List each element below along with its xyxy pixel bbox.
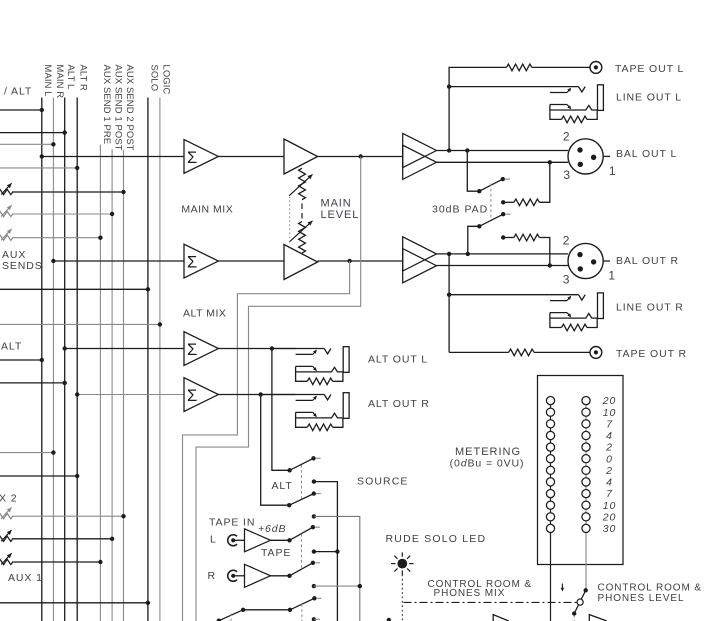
connector tape in R RCA [228,570,237,581]
wire level gang [573,616,575,621]
switch main mix source b [290,598,314,610]
potentiometer wiper R [289,221,312,242]
wire driver R minus out [437,265,569,267]
svg-text:(0dBu = 0VU): (0dBu = 0VU) [450,457,525,469]
switch source alt R [289,494,314,506]
switch source alt L [290,458,314,470]
wire alt out R [218,394,295,396]
svg-text:ALT OUT R: ALT OUT R [368,398,430,410]
switch cr phones level [584,588,588,592]
wire driver R plus out [437,253,569,255]
wire sum R to level amp [218,260,284,262]
op-amp phones L partial [493,615,509,621]
svg-text:PHONES MIX: PHONES MIX [434,588,506,599]
svg-text:4: 4 [606,430,613,442]
svg-text:1: 1 [609,164,617,178]
LED meter column L [546,397,554,405]
svg-text:3: 3 [563,273,571,287]
wire tape out R [449,351,509,353]
LED meter column R [582,397,590,405]
wire line out L feed [449,86,550,88]
potentiometer wiper L [289,174,312,195]
connector tape out L RCA [590,62,602,74]
wire meter column R [585,401,587,591]
wire main L out [318,156,403,158]
wire tape out R b [534,351,590,353]
switch pad L [479,179,503,191]
wire aux send [12,538,112,540]
wire alt mix R feed [77,394,184,396]
wire gang dotted [289,197,291,243]
svg-text:30: 30 [603,523,616,535]
wire MAIN R bus [52,98,54,621]
wire aux send [12,561,100,563]
connector alt out R jack [261,394,325,396]
wire ALT R bus [76,98,78,621]
svg-text:ALT: ALT [1,341,22,353]
wire SOLO bus [147,98,149,621]
svg-text:AUX SEND 1 PRE: AUX SEND 1 PRE [102,65,113,145]
svg-text:/ ALT: / ALT [4,86,32,98]
wire alt L to switch [272,349,290,471]
svg-text:L: L [210,533,217,545]
resistor main level pot R [299,222,306,254]
wire tape out L riser [449,67,506,150]
wire source gang B [301,534,303,570]
wire line out R feed [449,294,550,296]
wire source bus R [312,514,316,518]
wire alt out L [218,348,295,350]
wire channel feed alt R [0,475,77,477]
node bottom tap [312,617,316,621]
op-amp U3 alt mix L sum [184,332,218,366]
op-amp U4 alt mix R sum [184,378,218,412]
wire MAIN L bus [41,98,43,621]
svg-text:2: 2 [605,442,613,454]
wire channel feed [0,167,77,169]
svg-text:1: 1 [608,269,616,283]
wire line out R drop [448,254,450,353]
wire logic feed [0,323,160,325]
svg-text:ALT MIX: ALT MIX [183,308,226,320]
wire driver L plus out [437,150,569,152]
svg-text:BAL OUT L: BAL OUT L [616,148,677,160]
wire pad L pivot [467,151,479,192]
svg-text:ALT OUT L: ALT OUT L [368,353,428,365]
wire aux send [12,237,100,239]
LED rude solo [397,559,407,569]
svg-text:CONTROL ROOM &: CONTROL ROOM & [598,583,702,594]
connector tape in L RCA [228,535,237,546]
svg-text:MAIN: MAIN [321,198,352,210]
wire channel feed [0,109,42,111]
wire alt R to switch [261,395,290,506]
wire tape out L [532,66,590,68]
connector alt out L jack [272,348,324,350]
op-amp U9 tape in L [245,529,271,552]
wire main R out [318,260,403,262]
wire aux send [12,191,124,193]
svg-text:2: 2 [563,130,571,144]
svg-text:20: 20 [602,395,616,407]
wire alt mix L feed [65,348,184,350]
svg-text:TAPE OUT R: TAPE OUT R [616,348,687,360]
wire sum L to level amp [218,156,284,158]
potentiometer aux send [0,235,13,240]
wire AUX SEND 1 POST bus [111,149,113,621]
svg-text:Σ: Σ [187,341,197,359]
wire ALT L bus [64,98,66,621]
svg-text:X 2: X 2 [0,493,17,505]
op-amp U10 tape in R [245,564,271,587]
connector line out L jack [550,86,579,88]
svg-text:MAIN L: MAIN L [43,65,54,97]
svg-text:ALT: ALT [272,480,293,492]
resistor pad L [501,200,505,204]
wire main mix R feed [53,260,184,262]
wire channel feed main R [0,452,53,454]
potentiometer aux send [0,189,13,194]
svg-text:MAIN R: MAIN R [55,65,66,99]
wire main R to source [183,261,350,621]
potentiometer aux send [0,211,13,216]
wire gang D [301,604,303,621]
resistor main level pot L [299,168,306,200]
potentiometer aux send [0,559,13,564]
wire tap to R bus [312,584,316,588]
svg-text:+6dB: +6dB [258,523,286,535]
svg-text:AUX 1: AUX 1 [8,572,43,584]
switch source tape R [290,563,313,576]
svg-text:LINE OUT R: LINE OUT R [616,302,684,314]
node level min arrow [561,584,563,589]
svg-text:10: 10 [603,407,616,419]
wire tape R to switch [271,575,290,577]
svg-text:PHONES LEVEL: PHONES LEVEL [598,593,685,604]
svg-text:SOURCE: SOURCE [357,475,409,487]
wire gang C [230,614,232,621]
node bottom left dot [387,618,391,621]
potentiometer aux send [0,536,13,541]
resistor pad R [501,235,505,239]
svg-text:ALT L: ALT L [66,65,77,90]
svg-text:2: 2 [563,234,571,248]
svg-text:0: 0 [606,453,613,465]
op-amp U1 main mix L sum [184,140,218,174]
wire channel feed alt L [0,382,65,384]
svg-text:RUDE SOLO LED: RUDE SOLO LED [386,533,487,545]
svg-text:SENDS: SENDS [2,260,43,272]
svg-text:AUX SEND 2 POST: AUX SEND 2 POST [125,65,136,151]
switch source tape L [290,527,313,540]
svg-text:30dB PAD: 30dB PAD [432,203,488,215]
svg-text:ALT R: ALT R [79,65,90,92]
svg-text:TAPE IN: TAPE IN [209,517,255,529]
svg-text:MAIN MIX: MAIN MIX [181,203,233,215]
wire source gang A [301,465,303,499]
svg-text:4: 4 [606,477,613,489]
wire solo feed [0,288,148,290]
svg-text:Σ: Σ [187,253,197,271]
wire tap to L bus [312,549,316,553]
switch main mix source a [219,610,243,621]
wire channel feed [0,143,53,145]
wire main mix L feed [42,156,184,158]
wire dash-dot [404,601,577,603]
wire main L to source [196,157,361,621]
svg-text:LINE OUT L: LINE OUT L [616,91,682,103]
wire pot gang dash [301,204,303,219]
potentiometer aux send [0,514,13,519]
svg-text:R: R [208,570,216,582]
op-amp phones R partial [589,615,607,621]
svg-text:LEVEL: LEVEL [321,209,360,221]
wire solo feed 2 [0,602,148,604]
svg-text:7: 7 [606,488,613,500]
op-amp U7 balanced driver L [403,133,437,167]
op-amp U6 main level R [284,245,318,280]
wire LOGIC bus [159,98,161,621]
svg-text:BAL OUT R: BAL OUT R [616,255,679,267]
wire solo led dotted [401,575,403,621]
wire pad gang [490,184,492,222]
svg-text:Σ: Σ [187,387,197,405]
svg-text:AUX SEND 1 POST: AUX SEND 1 POST [114,65,125,151]
resistor tape out L [506,64,531,71]
wire source bus L [312,479,316,483]
wire channel feed [0,132,65,134]
wire bottom link [243,609,290,611]
svg-text:LOGIC: LOGIC [161,65,172,95]
svg-text:TAPE OUT L: TAPE OUT L [615,63,684,75]
svg-text:10: 10 [603,500,616,512]
connector bal out R XLR [568,243,603,278]
wire tape L to switch [271,539,290,541]
wire aux send [12,515,124,517]
wire aux send [12,213,112,215]
switch pad R [479,214,503,226]
wire driver L minus out [437,161,569,163]
svg-text:20: 20 [602,511,616,523]
wire AUX SEND 2 POST bus [123,150,125,621]
connector tape out R RCA [590,347,602,359]
svg-text:3: 3 [563,168,571,182]
wire channel feed main L [0,359,42,361]
resistor tape out R [509,349,534,356]
op-amp U5 main level L [284,139,318,174]
svg-text:7: 7 [606,418,613,430]
svg-text:Σ: Σ [187,149,197,167]
connector bal out L XLR [568,139,603,174]
op-amp U2 main mix R sum [184,244,218,278]
svg-text:SOLO: SOLO [149,65,160,92]
op-amp U8 balanced driver R [403,237,437,271]
svg-text:TAPE: TAPE [261,547,291,559]
svg-text:2: 2 [605,465,613,477]
meter box [538,376,624,565]
wire AUX SEND 1 PRE bus [99,145,101,621]
wire meter column L [550,401,552,621]
connector line out R jack [550,294,579,296]
wire pad R pivot [468,226,480,254]
